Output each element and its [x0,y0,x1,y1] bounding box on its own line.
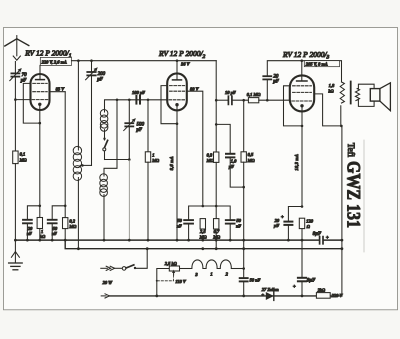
wire coil feed down [77,61,79,148]
wire grid line tube2 input [105,100,168,110]
svg-text:MΩ: MΩ [68,224,77,229]
capacitor 20pF feedback [263,78,271,80]
transformer primary 1,8k zigzag [341,61,343,82]
svg-text:MΩ: MΩ [212,234,221,239]
tube2 grid dashes g2 [170,90,185,92]
node coil to live bus [77,247,80,250]
tube1 grid dashes g3 [33,82,47,84]
resistor 2,5 kOhm tapped [169,266,179,271]
node cathode network junction [39,205,42,208]
node rail to 200pF [90,59,93,62]
svg-text:200: 200 [98,72,106,77]
node 500pF bottom junction [128,158,131,161]
wire osc coil bottom to live bus [77,180,79,248]
svg-text:50: 50 [236,218,241,223]
tube2 anode bar [173,79,182,81]
rectifier selenium diode [266,292,274,300]
wire 0,5M down [243,162,245,249]
node bus left end [14,239,17,242]
node suppressor cathode junction tube2 [176,122,179,125]
wire rail down to coupling [215,61,217,152]
capacitor 50nF avc right [226,219,235,221]
node 500pF top branch [128,99,131,102]
capacitor 500pF trimmer [125,122,133,124]
node switch riser on live bus [146,247,149,250]
wire 20pF lower lead [266,80,268,100]
resistor 0,7 MOhm [214,219,219,229]
tube RV12P2000/3 envelope [290,75,314,111]
wire 0,3M down [215,162,217,248]
loudspeaker magnet [370,89,380,102]
svg-text:+: + [281,215,284,220]
svg-text:MΩ: MΩ [151,158,160,163]
tube RV12P2000/1 envelope [31,74,50,110]
wire switch to band wire [104,151,106,160]
wire tube1 suppressor to cathode [23,83,40,123]
svg-text:1: 1 [210,271,212,276]
svg-text:80 V: 80 V [190,86,200,91]
wire coil to switch contact [104,131,106,140]
svg-text:MΩ: MΩ [199,234,208,239]
wire 500pF to band wire [128,126,130,159]
wire tube1 screen 85V tap [50,91,66,93]
svg-text:kΩ: kΩ [40,234,46,239]
svg-text:8µF: 8µF [307,278,316,283]
capacitor 8uF bottom electrolytic [298,277,306,279]
wire coupling line left [216,99,227,101]
capacitor 50nF avc left [184,219,193,221]
wire antenna to 70pF [14,62,16,73]
main ground bus [15,239,318,241]
node 1M bus [147,239,150,242]
inductor oscillator coil [73,146,81,180]
mains terminal lower [101,295,106,297]
svg-text:27 Zellen: 27 Zellen [262,287,280,292]
tube2 anode lead to rail [176,61,178,80]
node 0,2M bus [64,239,67,242]
wire tube2 suppressor to cathode [161,86,177,124]
main bus right segment [324,239,342,241]
resistor 0,5 MOhm [243,100,245,152]
antenna symbol [5,39,29,46]
tube1 grid dashes g1 [32,99,48,101]
node live bus dots [201,247,204,250]
wire 1uF down and right [230,157,244,187]
resistor 1 kOhm (cathode bias) [37,218,42,229]
transformer secondary zigzag [355,89,359,101]
bottom mains bus [109,295,342,297]
transformer core bar [350,82,352,104]
node 0,5M branch [242,99,245,102]
svg-text:20: 20 [275,218,280,223]
wire branch 1uF [216,124,230,153]
wire 2,5k to barretter [180,268,191,270]
svg-text:nF: nF [27,231,32,236]
resistor 2 kOhm mains dropper [316,293,330,299]
node tube2 anode on rail [176,59,179,62]
svg-text:1: 1 [152,152,154,157]
wire B+ line down from primary [340,106,342,126]
anode supply rail tube1/tube2 [72,60,217,62]
tube RV12P2000/2 envelope [167,73,187,110]
tube3 anode lead [301,61,303,81]
label Tefi rotated [346,143,356,158]
tube3 cathode dot [300,104,303,107]
wire 10pF to 0,1M [233,99,249,101]
capacitor 1,0uF [226,153,234,155]
node coil2 bus [103,239,106,242]
mains terminal upper [101,267,108,269]
svg-text:GWZ 131: GWZ 131 [343,161,365,228]
svg-text:8µF: 8µF [313,232,322,237]
switch band switch blade [103,138,105,140]
node avc junction right [215,205,218,208]
capacitor 200pF trimmer [87,71,95,73]
svg-text:Tefi: Tefi [346,143,356,158]
svg-text:36 V: 36 V [181,61,191,66]
tube3 anode bar [297,80,307,82]
barretter heater winding humps [190,260,232,269]
tube2 grid dashes g1 [169,99,185,101]
resistor 0,1 MOhm coupling [248,98,258,103]
svg-text:+: + [261,292,264,297]
svg-text:nF: nF [177,224,182,229]
tube2 cathode dot [175,103,178,106]
capacitor 100pF coupling [135,96,137,104]
wire 70pF to grid node [14,77,16,151]
svg-text:2kΩ: 2kΩ [318,287,326,292]
capacitor 20nF (cathode bypass) [23,219,32,221]
wire dropper elbow [157,269,170,296]
scan artifact line [363,140,365,252]
svg-text:MΩ: MΩ [19,158,28,163]
capacitor 70pF (trimmer plates) [11,72,19,74]
wire barretter to live riser [232,268,244,270]
svg-text:pF: pF [20,78,28,83]
wire tube2 cathode down to bus [176,106,178,240]
wire live riser through barretter node [243,249,245,278]
resistor 120 Ohm cathode [299,218,304,228]
node 20pF branch [266,99,269,102]
wire branch to 20nF [27,206,39,219]
label box 205 V, 8 mA [304,61,339,67]
svg-text:500: 500 [137,122,145,127]
dashed tap line 110V [158,275,174,281]
tube3 grid dashes g2 [293,91,312,93]
trimmer arrow of 70pF [10,69,21,80]
svg-text:µF: µF [274,223,280,228]
svg-text:pF: pF [272,80,280,85]
wire tube3 cathode down [301,107,303,207]
wire 0,1M to tube3 grid [259,99,289,101]
capacitor 10pF [227,96,229,104]
resistor 2,5 MOhm [200,219,205,229]
svg-text:kΩ: kΩ [328,89,334,94]
svg-text:µF: µF [229,164,235,169]
wire tube3 suppressor to cathode [284,86,303,126]
wire branch down to lower coil [104,100,117,174]
svg-text:110 V: 110 V [175,279,187,284]
tube1 cathode dot [38,103,41,106]
wire antenna lead down [16,39,18,56]
tube1 grid dashes g2 [33,91,47,93]
svg-text:120: 120 [306,219,314,224]
capacitor 20uF electrolytic [284,221,292,223]
loudspeaker box [357,84,374,88]
node suppressor cathode junction [301,125,304,128]
node antenna to grid1 [14,98,17,101]
node cathode3 network junction [301,205,304,208]
inductor antenna coil upper [100,110,108,132]
svg-text:pF: pF [135,128,143,133]
node tube3 anode on rail [301,59,304,62]
svg-text:85 V: 85 V [56,87,66,92]
node suppressor cathode junction tube1 [39,122,42,125]
loudspeaker cone [380,83,391,111]
node 20nF bus [26,239,29,242]
node B+ live bus [341,247,344,250]
wire 200pF down to coil tap [91,75,93,165]
node 500pF leg bus [128,239,131,242]
capacitor 50nF mains [240,277,248,279]
wire lower coil to ground bus [103,196,105,241]
tube3 grid dashes g1 [292,100,312,102]
svg-text:50 nF: 50 nF [250,277,261,282]
resistor 1 MOhm grid leak tube2 [147,100,149,152]
wire 20pF up to tube3 rail [267,61,341,76]
wire avc horizontal [189,206,231,220]
wire branch to 50nF cap [52,206,65,219]
node avc junction left [202,205,205,208]
node 1k bus [38,239,41,242]
wire 200pF branch upper [91,61,93,71]
svg-text:nF: nF [236,224,241,229]
node B+ main bus [341,239,344,242]
svg-text:50: 50 [177,218,182,223]
wire antenna to tube1 grid1 [15,99,30,101]
svg-text:nF: nF [52,231,57,236]
tap arrow on 2,5k [173,271,175,275]
node screen network junction [64,205,67,208]
wire tube2 screen tap 80V [187,91,203,206]
svg-text:MΩ: MΩ [206,158,215,163]
wire coil tap [80,164,91,166]
wire branch to 20uF [288,207,302,222]
resistor 0,2 MOhm (screen dropper) [63,218,68,229]
svg-text:100 pF: 100 pF [132,90,145,95]
svg-text:10 pF: 10 pF [225,90,236,95]
tube2 grid dashes g1 [170,85,185,87]
node tap junction [81,164,84,167]
wire 85V line down to screen network [64,92,66,218]
svg-text:20 W: 20 W [103,280,114,285]
resistor 0,1 MOhm (antenna grid leak) [13,151,18,164]
svg-text:MΩ: MΩ [247,158,256,163]
node coupling junction [215,99,218,102]
capacitor 8uF in bus [319,237,321,244]
capacitor 50nF (screen bypass) [48,219,57,221]
node screen B+ junction [340,125,343,128]
resistor 0,3 MOhm [214,152,219,162]
wire tube3 screen to B+ [314,94,342,126]
wire tube1 cathode down [39,105,41,218]
svg-text:220 V: 220 V [332,293,344,298]
node bus dots mid [187,239,190,242]
wire 500pF upper lead [128,100,130,123]
tube3 grid dashes g3 [293,85,312,87]
svg-text:pF: pF [96,77,104,82]
label GWZ 131 rotated [343,161,365,228]
node cathode2 bus [176,239,179,242]
node 1MOhm branch [147,99,150,102]
node coil2 top branch [116,99,119,102]
node 0,5M 1uF junction [242,186,245,189]
node branch on 216 line [215,123,218,126]
wire switch to live bus riser [136,249,147,269]
node 50nF bus [51,239,54,242]
node rail to osc coil feed [77,59,80,62]
ground symbol [14,240,16,262]
wire 0,1MOhm to ground bus [14,164,16,241]
wire band wire horizontal [105,159,130,161]
antenna connector chevron [13,56,20,60]
op-point label box 220 V, 2,6 mA [40,57,71,65]
inductor antenna coil lower [100,174,108,197]
svg-text:+: + [293,285,296,290]
live bus (second bus) [65,240,342,249]
tube1 anode lead to label box [39,65,41,79]
wire 500pF leg to ground bus (faint) [128,160,130,241]
tube1 anode bar [36,79,45,81]
switch mains [115,267,123,269]
